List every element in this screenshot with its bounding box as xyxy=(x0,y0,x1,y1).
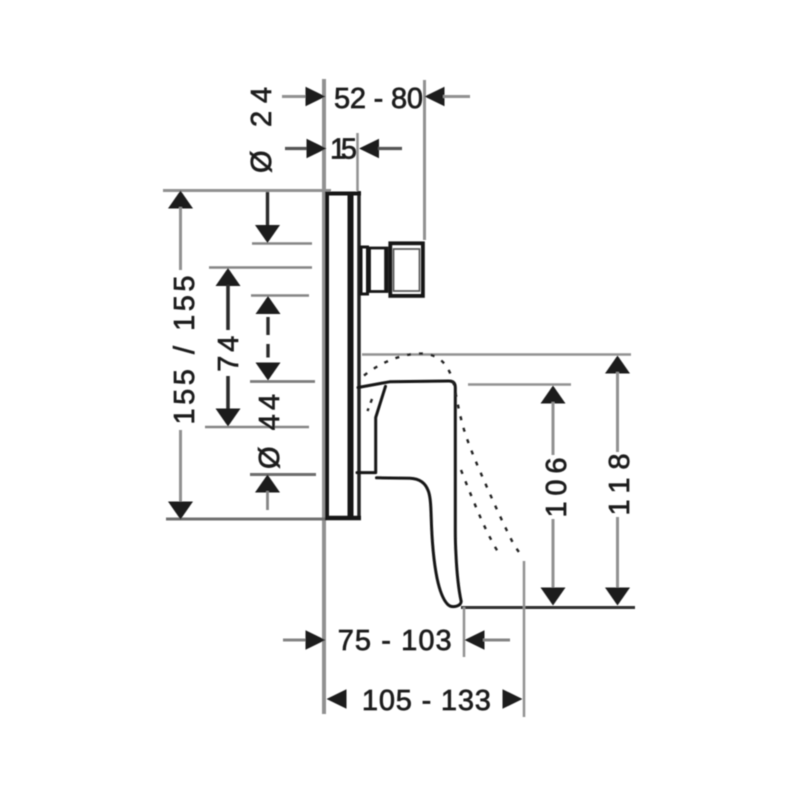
dimension 106 top arrow (up) xyxy=(541,386,566,404)
dimension 15 right shaft xyxy=(378,147,402,150)
bottom reference line L8 xyxy=(166,518,327,521)
spout pipe body xyxy=(370,248,388,292)
spout connector ring xyxy=(361,247,368,294)
spout centerline L3 xyxy=(209,266,312,269)
dimension 52-80 left arrow xyxy=(306,87,326,107)
dimension 75-103 left arrow xyxy=(306,630,326,650)
dimension 118 lower shaft xyxy=(616,517,619,589)
dimension 105-133 right arrow xyxy=(503,689,523,709)
handle centerline L6 xyxy=(205,426,309,429)
escutcheon plate right edge xyxy=(348,193,354,518)
extension line 106 top xyxy=(468,383,571,386)
dimension Ø44 lower arrow (up) xyxy=(255,475,280,493)
dimension 155/155 upper shaft xyxy=(179,207,182,270)
svg-text:118: 118 xyxy=(604,454,636,516)
spout pipe end ring xyxy=(384,248,387,292)
extension line 105-133 right xyxy=(523,561,526,717)
dimension 106 lower shaft xyxy=(552,519,555,589)
handle lever outline xyxy=(358,381,461,607)
dimension 106 upper shaft xyxy=(552,402,555,455)
dimension 52-80 right shaft xyxy=(443,95,470,98)
dimension 75-103 right arrow xyxy=(465,630,485,650)
dimension 75-103 right shaft xyxy=(483,639,510,642)
svg-text:15: 15 xyxy=(330,134,357,166)
hole bottom boundary line L7 xyxy=(250,473,316,476)
dimension 155/155 bottom arrow (down) xyxy=(168,502,193,520)
extension line 75-103 right xyxy=(463,607,466,657)
extension line 15 right xyxy=(356,133,359,191)
dimension 74 bottom arrow (down) xyxy=(216,409,241,427)
top reference line L1 xyxy=(163,189,331,192)
wall extension line xyxy=(322,79,326,714)
dimension 15 right arrow xyxy=(359,139,379,159)
dimension 15 left shaft xyxy=(285,147,308,150)
svg-text:105 - 133: 105 - 133 xyxy=(362,685,491,717)
dimension Ø24 upper arrow (down) xyxy=(255,225,280,243)
spout top boundary line L2 xyxy=(252,242,312,245)
dimension 74 upper shaft xyxy=(226,285,230,331)
dimension 74 lower shaft xyxy=(226,376,230,410)
dimension 106 bottom arrow (down) xyxy=(541,588,566,606)
handle boss outline xyxy=(357,386,386,472)
hole top boundary line L5 xyxy=(250,380,315,383)
svg-text:52 - 80: 52 - 80 xyxy=(334,83,423,115)
phantom handle raised front edge (dashed) xyxy=(461,470,500,555)
extension line 52-80 right xyxy=(423,80,426,240)
dimension 52-80 right arrow xyxy=(425,87,445,107)
dimension 118 bottom arrow (down) xyxy=(605,588,630,606)
dimension 155/155 top arrow (up) xyxy=(168,191,193,209)
plate bottom edge xyxy=(325,516,361,521)
dimension Ø44 upper arrow (down) xyxy=(256,363,281,381)
bottom reference line of handle xyxy=(461,606,635,609)
svg-text:155 / 155: 155 / 155 xyxy=(169,276,201,425)
shared dashed shaft between Ø24 and Ø44 xyxy=(266,317,269,335)
dimension 15 left arrow xyxy=(307,139,327,159)
spout end cap outer xyxy=(390,243,423,296)
dimension 118 top arrow (up) xyxy=(605,356,630,374)
phantom boss edge (dashed) xyxy=(368,399,373,411)
svg-text:106: 106 xyxy=(541,458,573,518)
dimension Ø24 upper shaft xyxy=(266,192,269,227)
phantom handle raised top edge (dashed) xyxy=(364,354,524,558)
spout end cap inner xyxy=(394,249,420,291)
dimension 75-103 left shaft xyxy=(283,639,307,642)
dimension Ø44 lower shaft xyxy=(266,491,269,510)
spout bottom boundary line L4 xyxy=(251,294,309,297)
dimension 155/155 lower shaft xyxy=(179,430,182,503)
dimension 105-133 left arrow xyxy=(327,689,347,709)
escutcheon plate left edge xyxy=(325,193,329,518)
extension line 118 top xyxy=(362,353,631,356)
dimension 52-80 left shaft xyxy=(282,95,307,98)
dimension Ø24 lower arrow (up) xyxy=(256,296,281,314)
plate top edge xyxy=(325,192,361,196)
svg-text:75 - 103: 75 - 103 xyxy=(338,625,452,657)
dimension 118 upper shaft xyxy=(616,372,619,452)
dimension 74 top arrow (up) xyxy=(216,268,241,286)
valve sleeve edge xyxy=(357,191,361,516)
